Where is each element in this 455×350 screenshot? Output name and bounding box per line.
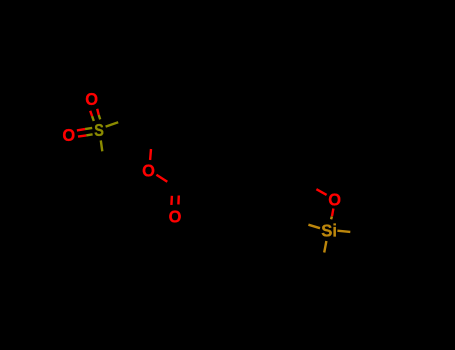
bond Si-C down silicon-side half: [324, 241, 326, 253]
bond S=O left, line 1 sulfur-side half: [85, 128, 92, 129]
bond S=O top, line 2 sulfur-side half: [99, 115, 101, 120]
bond O ester-C carbonyl oxygen-side half: [156, 175, 167, 182]
bond S-CH2 sulfur-side half: [106, 122, 119, 126]
bond C=O carbonyl, line 2 oxygen-side half: [177, 196, 180, 205]
svg-text:S: S: [94, 120, 104, 140]
svg-text:O: O: [85, 89, 98, 109]
bond Si-CH3 left silicon-side half: [308, 225, 320, 229]
bond S=O left, line 2 sulfur-side half: [86, 134, 92, 135]
bond S=O left, line 2 oxygen-side half: [78, 135, 86, 136]
bond C=O carbonyl, line 1 oxygen-side half: [170, 196, 173, 205]
bond S=O top, line 2 oxygen-side half: [97, 109, 99, 115]
svg-text:O: O: [169, 207, 182, 227]
bond O-Si silicon-side half: [330, 216, 333, 219]
bond Si-C right silicon-side half: [337, 231, 350, 232]
svg-text:O: O: [62, 125, 75, 145]
svg-text:Si: Si: [321, 221, 337, 241]
bond S=O top, line 1 sulfur-side half: [92, 116, 94, 121]
svg-text:O: O: [142, 161, 155, 181]
svg-text:O: O: [328, 190, 341, 210]
bond C-O silyl oxygen-side half: [316, 189, 326, 195]
bond S=O left, line 1 oxygen-side half: [77, 129, 85, 130]
bond S=O top, line 1 oxygen-side half: [90, 111, 92, 116]
bond S-CH3 sulfur-side half: [101, 140, 103, 151]
bond C-O ester oxygen-side half: [149, 149, 152, 160]
bond O-Si oxygen-side half: [332, 209, 333, 217]
